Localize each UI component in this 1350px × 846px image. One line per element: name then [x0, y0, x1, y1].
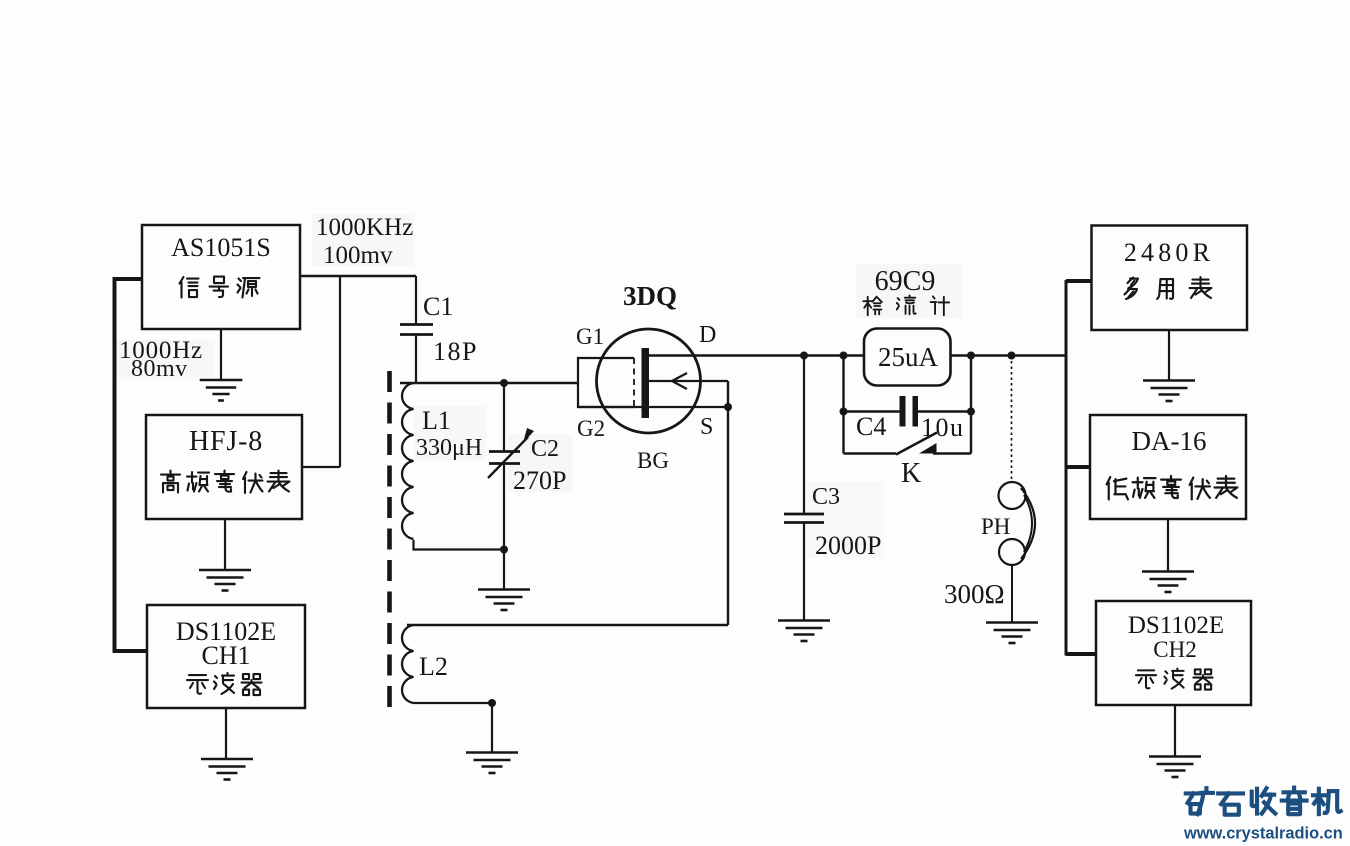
svg-text:2000P: 2000P [815, 531, 881, 560]
svg-text:S: S [700, 414, 713, 440]
svg-text:C2: C2 [531, 436, 559, 462]
svg-text:CH1: CH1 [201, 641, 250, 670]
svg-text:CH2: CH2 [1153, 637, 1196, 662]
svg-text:PH: PH [981, 514, 1010, 539]
svg-text:L1: L1 [422, 406, 451, 435]
svg-text:AS1051S: AS1051S [171, 233, 271, 262]
svg-text:D: D [699, 322, 716, 348]
svg-text:C4: C4 [856, 412, 886, 441]
svg-text:3DQ: 3DQ [623, 281, 677, 311]
svg-text:270P: 270P [513, 466, 566, 495]
svg-text:L2: L2 [419, 652, 448, 681]
svg-text:300Ω: 300Ω [944, 579, 1005, 609]
svg-text:330μH: 330μH [416, 435, 482, 461]
svg-text:69C9: 69C9 [875, 266, 936, 297]
svg-text:BG: BG [637, 448, 669, 473]
svg-text:1000KHz: 1000KHz [316, 214, 413, 241]
svg-text:10u: 10u [921, 413, 965, 442]
svg-text:25uA: 25uA [878, 342, 939, 372]
svg-text:G2: G2 [577, 416, 605, 441]
svg-text:HFJ-8: HFJ-8 [189, 426, 263, 457]
svg-text:DS1102E: DS1102E [1128, 612, 1224, 639]
svg-text:DA-16: DA-16 [1132, 426, 1207, 456]
svg-text:G1: G1 [576, 324, 604, 349]
svg-text:K: K [901, 458, 921, 489]
svg-text:www.crystalradio.cn: www.crystalradio.cn [1183, 825, 1343, 843]
svg-text:80mv: 80mv [131, 356, 188, 382]
svg-text:C1: C1 [423, 292, 453, 321]
svg-text:C3: C3 [812, 484, 840, 510]
svg-text:100mv: 100mv [323, 242, 393, 269]
svg-text:2480R: 2480R [1124, 238, 1214, 267]
svg-text:18P: 18P [433, 337, 478, 366]
